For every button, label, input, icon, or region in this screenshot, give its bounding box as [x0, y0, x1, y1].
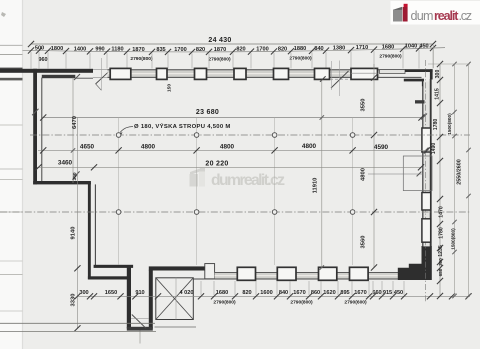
- right wall inner face: [422, 86, 424, 247]
- bottom wall band fill: [215, 272, 398, 279]
- strip line y125: [0, 124, 23, 126]
- svg-text:24 430: 24 430: [208, 37, 231, 44]
- strip line (chain cont.): [0, 54, 23, 56]
- right chain line 1: [439, 64, 441, 296]
- svg-text:dumrealit.cz: dumrealit.cz: [211, 172, 285, 189]
- strip line y169: [0, 168, 23, 170]
- strip wall bar cont.: [0, 68, 23, 71]
- svg-text:Ø 180, VÝSKA STROPU 4,500 M: Ø 180, VÝSKA STROPU 4,500 M: [134, 123, 231, 130]
- door opening mid-right diagonal: [331, 71, 349, 88]
- staircase mid vertical: [175, 278, 177, 320]
- vdim line 6470: [72, 78, 74, 183]
- interior box leader line: [368, 173, 423, 175]
- svg-text:2790(800): 2790(800): [289, 55, 312, 61]
- interior box right: [403, 156, 432, 191]
- svg-text:1800: 1800: [51, 46, 63, 52]
- bottom wall windows: [237, 267, 255, 280]
- strip line y311: [0, 310, 23, 312]
- left wall inner face: [41, 78, 43, 181]
- svg-text:.cz: .cz: [459, 9, 473, 23]
- svg-text:1700: 1700: [174, 47, 186, 53]
- svg-text:1780: 1780: [438, 227, 444, 239]
- columns (circles): [116, 133, 121, 138]
- svg-text:2790(800): 2790(800): [213, 300, 236, 306]
- svg-text:1880: 1880: [294, 46, 306, 52]
- window mullion lines: [351, 72, 378, 74]
- logo dumrealit.cz: [391, 1, 480, 25]
- right chain 1 ticks: [437, 61, 443, 67]
- bottom wall inner bar left: [94, 265, 134, 268]
- column axis A dash-dot: [30, 134, 470, 136]
- scan speck top-left: [1, 12, 6, 17]
- window W6 tick: [320, 76, 326, 82]
- top wall windows: [110, 68, 131, 79]
- svg-text:300: 300: [79, 290, 88, 296]
- right wall window 1: [422, 128, 431, 152]
- top wall outer bar (solid left part): [0, 69, 93, 73]
- svg-text:4590: 4590: [374, 144, 389, 151]
- right chain 3 ticks: [466, 62, 470, 66]
- svg-text:4800: 4800: [220, 144, 235, 151]
- svg-text:20 220: 20 220: [205, 160, 228, 167]
- left wall outer bar: [33, 69, 37, 185]
- bottom wall outer bar left: [88, 276, 127, 279]
- bottom extension lines: [200, 281, 202, 295]
- svg-text:1870: 1870: [214, 47, 226, 53]
- svg-text:820: 820: [196, 47, 205, 53]
- svg-text:2790(800): 2790(800): [379, 54, 402, 60]
- svg-text:dum: dum: [411, 9, 434, 23]
- svg-text:1670: 1670: [293, 290, 305, 296]
- staircase diagonal 1: [156, 278, 194, 320]
- svg-text:150: 150: [166, 84, 172, 92]
- ground line 2: [0, 330, 156, 332]
- top extension lines: [30, 52, 32, 69]
- staircase diagonal 2: [156, 278, 194, 320]
- strip line y212: [0, 211, 23, 213]
- stair shaft left wall: [127, 265, 131, 329]
- door opening vertical guides: [331, 61, 333, 90]
- strip line y179: [0, 179, 23, 181]
- right top connector: [428, 63, 470, 65]
- overall line right ext: [432, 45, 434, 68]
- shaft inner step lines: [131, 318, 149, 320]
- svg-text:3550: 3550: [361, 99, 367, 112]
- svg-text:23 680: 23 680: [196, 109, 219, 116]
- svg-text:1380: 1380: [333, 45, 345, 51]
- vdim line 11910: [321, 80, 323, 268]
- interior chain ticks: [40, 147, 46, 153]
- svg-text:300: 300: [435, 70, 441, 79]
- svg-text:4650: 4650: [80, 144, 95, 151]
- top chain dim line: [23, 48, 446, 52]
- right chain line 2: [454, 64, 456, 296]
- svg-text:820: 820: [278, 46, 287, 52]
- vdim line 3550/4800/3560: [373, 64, 375, 268]
- right wall window 2: [422, 193, 431, 211]
- svg-text:915: 915: [383, 290, 392, 296]
- svg-text:960: 960: [39, 57, 48, 63]
- annotation leader: [120, 127, 133, 133]
- svg-text:2790(800): 2790(800): [130, 56, 153, 62]
- svg-text:realit: realit: [434, 9, 459, 23]
- right wall axis dash-dot: [425, 60, 427, 302]
- svg-text:895: 895: [340, 290, 349, 296]
- svg-text:2550/2600: 2550/2600: [457, 159, 463, 184]
- interior chain line: [38, 149, 430, 151]
- staircase box: [156, 278, 194, 320]
- column grid line 3: [274, 118, 276, 266]
- door leaf diagonal: [96, 72, 109, 84]
- svg-text:2790(600): 2790(600): [344, 300, 367, 306]
- top-right corner outer vertical: [430, 69, 433, 79]
- svg-text:835: 835: [156, 47, 165, 53]
- top-right corner top bar: [405, 69, 433, 72]
- svg-text:680: 680: [438, 268, 443, 276]
- right wall window 3: [422, 219, 431, 242]
- svg-text:3460: 3460: [58, 160, 73, 167]
- lower-left wall inner face: [94, 184, 96, 265]
- bottom wall band mid white line: [215, 275, 398, 277]
- top-right corner inner bar: [404, 79, 424, 82]
- svg-text:1600: 1600: [260, 290, 272, 296]
- strip line y274: [0, 274, 23, 276]
- left wall tick: [32, 109, 38, 115]
- svg-text:1470: 1470: [438, 206, 444, 218]
- top wall band inner line: [108, 76, 422, 78]
- right chain 2 ticks: [452, 62, 456, 66]
- shaft center line below: [139, 331, 141, 344]
- ground line 1: [0, 322, 155, 324]
- svg-text:4800: 4800: [361, 168, 367, 181]
- svg-text:1700: 1700: [256, 47, 268, 53]
- column axis B dash-dot: [0, 211, 470, 213]
- svg-text:11910: 11910: [313, 178, 319, 194]
- svg-text:1500(800): 1500(800): [451, 228, 456, 250]
- strip inner wall cont.: [0, 78, 23, 81]
- lower-left wall outer bar: [88, 183, 91, 280]
- door opening mid-right dashed sill: [330, 78, 349, 80]
- overall dim line 24430: [31, 43, 433, 45]
- svg-text:300: 300: [438, 258, 443, 266]
- svg-text:860: 860: [311, 290, 320, 296]
- svg-text:450: 450: [394, 290, 403, 296]
- svg-text:1235: 1235: [438, 245, 444, 257]
- svg-text:1670: 1670: [354, 290, 366, 296]
- bottom wall jog rect: [205, 264, 215, 279]
- svg-text:1680: 1680: [216, 290, 228, 296]
- top wall inner face left: [75, 77, 93, 79]
- top wall band fill: [108, 70, 380, 77]
- svg-text:1680: 1680: [382, 44, 394, 50]
- svg-text:990: 990: [95, 46, 104, 52]
- right wall tick: [423, 148, 429, 154]
- svg-text:840: 840: [279, 290, 288, 296]
- bottom wall band bottom line: [193, 278, 398, 280]
- svg-text:1870: 1870: [132, 47, 144, 53]
- top wall band mid white line: [108, 73, 380, 75]
- svg-text:2790(800): 2790(800): [208, 56, 231, 62]
- door jamb lines top-left opening: [93, 69, 108, 71]
- column grid line 4: [352, 118, 354, 266]
- svg-text:1180: 1180: [111, 47, 123, 53]
- strip line (dim line cont.): [0, 44, 23, 46]
- top wall pilaster: [42, 75, 76, 78]
- bottom chain dim line: [77, 295, 470, 297]
- strip line y261: [0, 260, 23, 262]
- bottom wall band top line: [215, 271, 398, 273]
- svg-text:4800: 4800: [141, 144, 156, 151]
- svg-text:1040: 1040: [405, 44, 417, 50]
- svg-text:4 020: 4 020: [180, 290, 194, 296]
- right wall outer face: [430, 79, 432, 247]
- top chain ticks: [28, 47, 34, 53]
- interior dim line 23680: [43, 117, 421, 119]
- landing line below stairs: [155, 326, 197, 328]
- right wall step bar: [415, 100, 425, 103]
- watermark dumrealit.cz: [190, 168, 286, 189]
- svg-text:2790(800): 2790(800): [290, 300, 313, 306]
- right chain line 3: [468, 64, 470, 296]
- dim line 3460/20220: [37, 166, 422, 168]
- vdim line 9140/3330: [76, 118, 78, 329]
- stair shaft right wall: [149, 270, 153, 329]
- svg-text:820: 820: [242, 290, 251, 296]
- top-right window strip: [380, 70, 406, 74]
- svg-text:1500(800): 1500(800): [447, 113, 452, 135]
- left page-edge strip: [0, 0, 23, 349]
- svg-text:840: 840: [314, 46, 323, 52]
- svg-text:1620: 1620: [323, 290, 335, 296]
- svg-text:1490: 1490: [431, 143, 437, 155]
- svg-text:1415: 1415: [434, 88, 440, 100]
- column grid line 1: [118, 118, 120, 266]
- top-right corner inner vertical: [422, 81, 424, 86]
- svg-text:3330: 3330: [71, 294, 77, 307]
- svg-text:1400: 1400: [74, 46, 86, 52]
- svg-text:1650: 1650: [105, 290, 117, 296]
- bottom-right corner wall chunk: [398, 246, 432, 280]
- svg-text:1710: 1710: [356, 45, 368, 51]
- bottom chain ticks: [74, 293, 80, 299]
- svg-text:820: 820: [236, 47, 245, 53]
- svg-text:4800: 4800: [302, 143, 317, 150]
- top wall band outer line: [108, 69, 406, 71]
- svg-text:3560: 3560: [361, 236, 367, 249]
- stair shaft bottom: [127, 327, 153, 331]
- step wall horizontal bar: [33, 181, 91, 184]
- bottom wall thick bar mid: [149, 266, 215, 270]
- svg-text:9140: 9140: [71, 227, 77, 240]
- column grid line 2: [196, 118, 198, 266]
- svg-text:1780: 1780: [433, 119, 439, 131]
- shaft door diagonal: [132, 315, 146, 329]
- right wall cavity fill: [423, 81, 430, 246]
